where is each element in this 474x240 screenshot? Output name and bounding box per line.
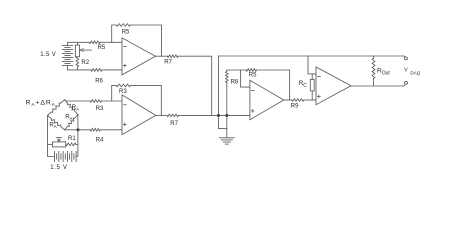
svg-text:R7: R7 [170, 121, 178, 127]
svg-text:R4: R4 [96, 138, 104, 144]
svg-text:R3: R3 [119, 89, 127, 95]
svg-text:1.5 V: 1.5 V [40, 52, 56, 58]
svg-text:1.5 V: 1.5 V [50, 165, 68, 171]
svg-text:R5: R5 [249, 73, 257, 79]
svg-text:R2: R2 [81, 60, 89, 66]
svg-text:R7: R7 [164, 59, 172, 65]
svg-text:R5: R5 [98, 45, 106, 51]
svg-text:RA: RA [72, 105, 79, 111]
svg-text:R6: R6 [95, 78, 103, 84]
svg-text:DAQ: DAQ [410, 70, 420, 75]
svg-text:R1: R1 [68, 136, 76, 142]
svg-text:RA: RA [49, 123, 56, 129]
svg-text:R8: R8 [231, 79, 239, 85]
svg-text:RA: RA [65, 115, 72, 121]
svg-text:R5: R5 [122, 29, 130, 35]
svg-text:R9: R9 [291, 103, 299, 109]
svg-text:R3: R3 [96, 106, 104, 112]
